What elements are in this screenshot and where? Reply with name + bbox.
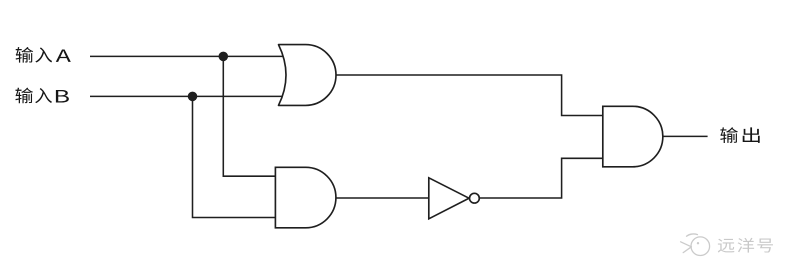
wire output [660,135,708,137]
node junction dot on input A [219,52,229,62]
and-gate U4 (output) [603,106,663,167]
label input A (输入A) [16,47,71,63]
and-gate U2 (bottom) [275,167,336,228]
wire AND1 output to inverter U3 input [335,197,430,199]
inverter U3 bubble [470,193,480,203]
node junction dot on input B [188,92,198,102]
label input B (输入B) [15,88,68,104]
wire inverter U3 output to AND2 bottom input [474,158,605,198]
or-gate U1 [279,45,337,106]
label output (输出) [720,127,759,143]
wire input B [90,95,286,97]
wire input A [90,55,286,57]
wire branch B to AND1 bottom input [193,96,279,217]
inverter U3 (NOT gate triangle) [429,178,469,219]
wire OR1 output to AND2 top input [336,75,605,116]
watermark logo (sketch fish) [681,234,710,256]
wire branch A to AND1 top input [223,56,278,176]
watermark text 远洋号 [717,237,773,253]
